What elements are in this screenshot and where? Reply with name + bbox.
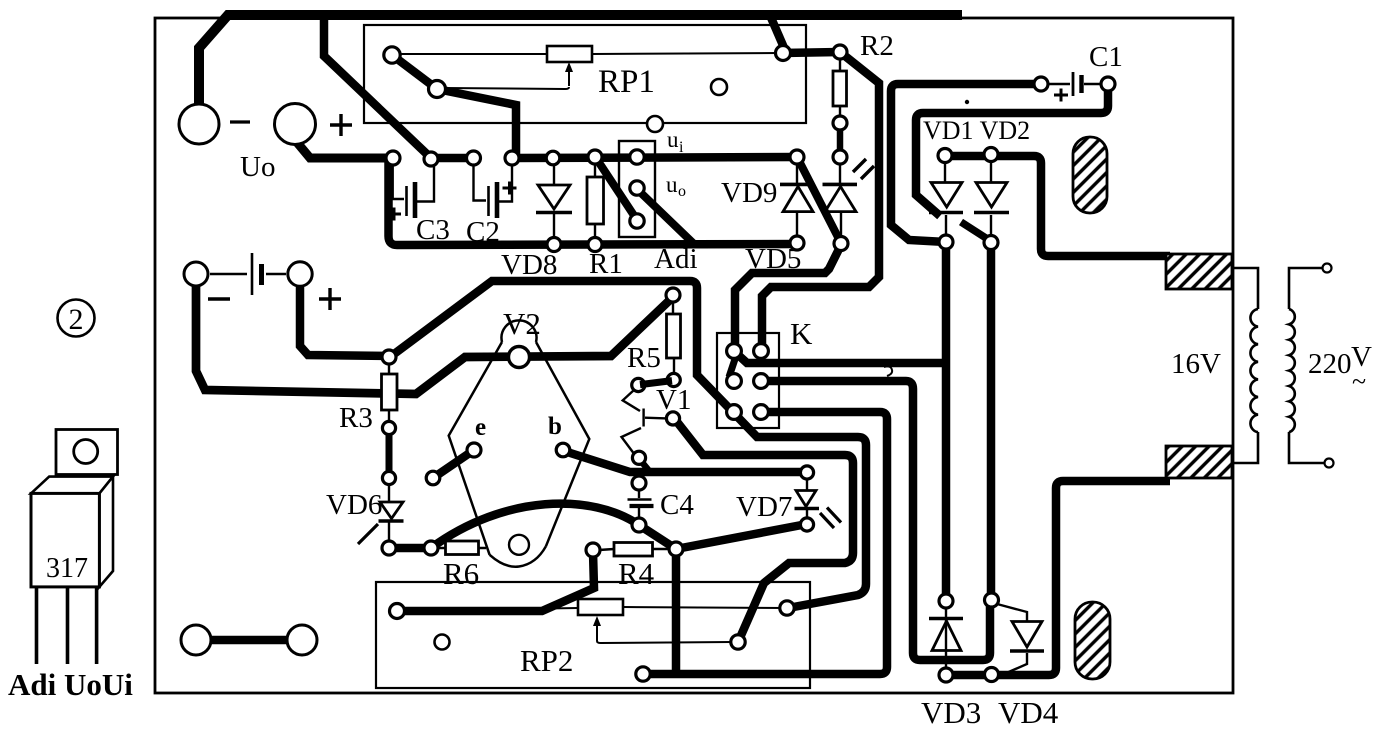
capacitor C1 [1048, 72, 1101, 102]
pin Adi [630, 214, 644, 228]
svg-text:V2: V2 [503, 306, 541, 341]
svg-text:u: u [666, 172, 678, 197]
317 body right face [99, 477, 113, 587]
transformer 220V winding [1289, 268, 1324, 463]
svg-text:220: 220 [1308, 348, 1352, 380]
terminal Uo minus [179, 104, 219, 144]
K pad top-left [727, 344, 742, 359]
bottom-left pad pair [181, 625, 211, 655]
K pad top-right [754, 344, 769, 359]
wire R4 right to VD7 bottom [676, 524, 807, 549]
V1 pad A to R5 bottom thick link [640, 381, 672, 385]
wire K bot-right down and left to RP2 pad [645, 412, 887, 674]
wire RP1 right pad to R2 top [782, 52, 840, 53]
regulator 317 package tab [56, 430, 118, 475]
wire e stub [433, 450, 474, 478]
svg-text:R4: R4 [618, 556, 655, 591]
V1 emitter pad [632, 451, 645, 464]
wire C1 right loop down [916, 84, 1108, 216]
battery symbol [208, 253, 341, 310]
capacitor C2 [474, 163, 517, 218]
terminal 220V bottom [1325, 459, 1334, 468]
wire battery minus rail to V2 pad to R5 top [196, 284, 673, 394]
RP1 wiper link to pad2 [443, 87, 569, 89]
RP1 mounting hole [711, 79, 727, 95]
wire VD1 bottom down to VD3 [942, 243, 951, 601]
RP1 right pad [776, 46, 791, 61]
row pad 1 [386, 151, 400, 165]
hatched oval pad upper right [1073, 137, 1107, 213]
plus sign [330, 114, 352, 136]
RP1 track line [398, 53, 780, 54]
svg-text:R3: R3 [339, 402, 373, 434]
V2 b pad [556, 443, 570, 457]
RP2 body [578, 599, 623, 615]
svg-text:V1: V1 [656, 384, 691, 416]
VD6 bottom pad [382, 541, 396, 555]
wire VD6 bottom to R6 pad [389, 544, 431, 553]
wire K top-left to mid-left pad [729, 356, 736, 377]
pin ui [630, 150, 644, 164]
VD6 top pad [382, 471, 395, 484]
wire C4 bottom to R4 right [639, 525, 676, 549]
K pad mid-right [754, 374, 769, 389]
wire top rail from Uo- to top edge [199, 15, 962, 108]
relay K outline box [717, 333, 779, 428]
svg-text:K: K [790, 316, 813, 351]
diode VD2 [974, 161, 1009, 236]
RP1 pad2 [429, 81, 446, 98]
diode VD9 [780, 164, 815, 237]
svg-text:e: e [475, 414, 486, 441]
e stub pad [426, 471, 440, 485]
resistor R1 [587, 150, 604, 252]
K pad mid-left [727, 374, 742, 389]
svg-text:VD4: VD4 [998, 695, 1059, 730]
transistor V1 symbol [622, 390, 668, 453]
wire top rail drop to pad2 [324, 12, 431, 158]
wire feed to RP1 right pad [769, 13, 785, 50]
svg-text:VD5: VD5 [745, 243, 801, 275]
svg-text:R1: R1 [589, 248, 623, 280]
figure number circle 2 [58, 300, 95, 337]
svg-text:RP1: RP1 [598, 64, 655, 100]
svg-text:C1: C1 [1089, 41, 1123, 73]
svg-text:VD6: VD6 [326, 489, 382, 521]
wire RP2 left pad to R4 left pad [397, 552, 594, 611]
LED VD7 [795, 479, 842, 528]
wire Uo+ to pad1 [295, 140, 393, 158]
hatched edge pad upper (16V tap) [1166, 254, 1232, 289]
wire VD5 bottom to K top-left pad [735, 245, 841, 350]
wire bend to V1 emitter pad [641, 461, 650, 472]
RP2 wiper pad [731, 635, 745, 649]
svg-text:R6: R6 [443, 556, 479, 591]
VD7 bottom pad [800, 518, 813, 531]
VD9 bottom pad [790, 236, 804, 250]
diode VD1 [929, 162, 963, 236]
VD7 top pad [800, 466, 813, 479]
terminal 220V top [1323, 264, 1332, 273]
RP2 left pad [390, 604, 405, 619]
V1 base pad [666, 412, 679, 425]
VD2 bottom pad [984, 236, 998, 250]
resistor R2 [833, 45, 847, 164]
R5 bottom pad [667, 373, 680, 386]
wire R4 right pad down [672, 551, 681, 672]
317 leg Adi [35, 587, 39, 664]
wire row pads 4-5-6 to ui pin to VD9 top [512, 157, 797, 158]
hatched edge pad lower (16V tap) [1166, 446, 1232, 478]
RP2 track line [400, 607, 787, 611]
wire pad1 down and bottom rail to VD9 bottom [389, 160, 798, 245]
K pad bot-right [754, 405, 769, 420]
svg-text:C3: C3 [416, 214, 450, 246]
RP2 mounting hole [435, 635, 450, 650]
svg-text:VD7: VD7 [736, 491, 792, 523]
capacitor C4 [628, 489, 654, 519]
C1 left pad [1034, 77, 1048, 91]
wire RP1 pad2 down to pad4 [437, 89, 516, 158]
svg-text:b: b [548, 413, 562, 440]
VD1 top pad [938, 149, 952, 163]
VD1 bottom pad [939, 235, 953, 249]
svg-text:16V: 16V [1171, 348, 1221, 380]
VD9 top pad [790, 150, 804, 164]
wire VD1 VD2 top feed from 16V pad [945, 156, 1170, 256]
svg-text:RP2: RP2 [520, 643, 573, 678]
VD2 top pad [984, 148, 998, 162]
pad ui on RP1 box edge [647, 116, 663, 132]
tiny squiggle mark above K trace [884, 366, 892, 376]
wire R3 pad diagonal along Adi row to K bot-left and down to RP2 [390, 281, 866, 608]
svg-text:2: 2 [69, 303, 84, 336]
wire VD2 bottom down to VD4 [987, 243, 996, 600]
pin uo [630, 181, 644, 195]
RP1 pad1 [384, 47, 400, 63]
svg-text:R2: R2 [860, 30, 894, 62]
wire battery plus to R3 top pad [300, 284, 388, 356]
wire uo pin diagonal to bottom rail [640, 192, 693, 243]
battery terminal plus [288, 262, 312, 286]
resistor R6 [424, 541, 486, 555]
svg-text:C4: C4 [660, 489, 694, 521]
wire R2 chain down to K top-right pad [762, 52, 879, 350]
VD4 top pad [985, 593, 999, 607]
317 tab hole [74, 440, 98, 464]
wire bottom-left pad pair [196, 636, 302, 645]
potentiometer RP2 outline box [376, 582, 810, 688]
317 leg Uo [66, 587, 70, 664]
wire row pads 2-3 [431, 154, 474, 163]
V1 pad A [632, 378, 645, 391]
tiny printed speck [965, 100, 969, 104]
V2 center pad [509, 347, 530, 368]
RP2 right pad [780, 601, 794, 615]
svg-text:R5: R5 [627, 342, 661, 374]
svg-text:u: u [667, 127, 679, 152]
K pad bot-left [727, 405, 742, 420]
C1 right pad [1101, 77, 1115, 91]
wire VD2 stub diagonal [961, 222, 989, 240]
svg-text:VD9: VD9 [721, 177, 777, 209]
V2 mounting hole [509, 535, 529, 555]
svg-text:VD1 VD2: VD1 VD2 [923, 116, 1030, 145]
svg-text:C2: C2 [466, 216, 500, 248]
diode VD4 [997, 604, 1044, 674]
resistor R5 [666, 288, 681, 374]
RP2 wiper arrow [596, 621, 598, 641]
317 body top face [31, 477, 113, 494]
wire pad6 to Adi pin diagonal [596, 158, 637, 220]
minus sign [230, 120, 250, 123]
wire VD3 bottom to lower 16V pad [946, 481, 1170, 675]
LED VD5 [823, 159, 875, 237]
svg-text:o: o [678, 183, 686, 200]
RP1 wiper arrow [568, 68, 570, 86]
battery terminal minus [184, 262, 208, 286]
board outline [155, 18, 1233, 693]
LED VD6 [358, 484, 404, 544]
row pad 2 [424, 152, 438, 166]
svg-text:Uo: Uo [240, 151, 275, 183]
svg-text:317: 317 [46, 553, 88, 584]
transistor V2 outline [449, 320, 590, 566]
wire K top pads to VD1 vertical [736, 353, 946, 363]
connector 317 footprint box [619, 141, 655, 237]
diode VD8 [536, 165, 572, 238]
VD5 bottom pad [834, 237, 848, 251]
V2 e pad [467, 443, 481, 457]
svg-text:Adi UoUi: Adi UoUi [8, 667, 133, 702]
VD3 bottom pad [939, 668, 953, 682]
317 leg Ui [95, 587, 99, 664]
resistor R4 [586, 542, 683, 557]
svg-text:Adi: Adi [654, 243, 698, 275]
RP1 body [547, 46, 592, 62]
wire K mid-right to VD4 loop [761, 381, 990, 660]
VD4 bottom pad [985, 668, 999, 682]
capacitor C3 [387, 164, 434, 221]
resistor R3 [382, 350, 398, 435]
diode VD3 [929, 608, 963, 668]
transformer 16V winding [1234, 268, 1258, 463]
VD3 top pad [939, 594, 953, 608]
svg-text:i: i [679, 139, 684, 156]
row pad 4 [505, 151, 519, 165]
wire big arc R6 pad to C4 bottom [431, 504, 639, 548]
svg-text:~: ~ [1352, 367, 1366, 396]
wire R3 bottom to VD6 top [386, 430, 393, 477]
svg-text:VD8: VD8 [501, 249, 557, 281]
RP2 bottom pad [636, 667, 650, 681]
row pad 3 [467, 151, 481, 165]
wire b pad along to VD7 top [564, 451, 807, 472]
hatched oval pad lower right [1075, 602, 1110, 679]
wire RP1 pad1 to pad2 diagonal [392, 55, 437, 89]
potentiometer RP1 outline box [364, 25, 806, 123]
wire C1 left to VD1 bottom [891, 84, 1041, 242]
svg-text:VD3: VD3 [921, 695, 981, 730]
wire V1 base pad loop around VD7 to RP2 wiper pad [674, 418, 853, 640]
terminal Uo plus [275, 104, 316, 145]
RP2 wiper link to pad [597, 641, 732, 643]
wire VD9 top to VD5 bottom diagonal [797, 157, 841, 243]
317 body front face [31, 493, 99, 587]
